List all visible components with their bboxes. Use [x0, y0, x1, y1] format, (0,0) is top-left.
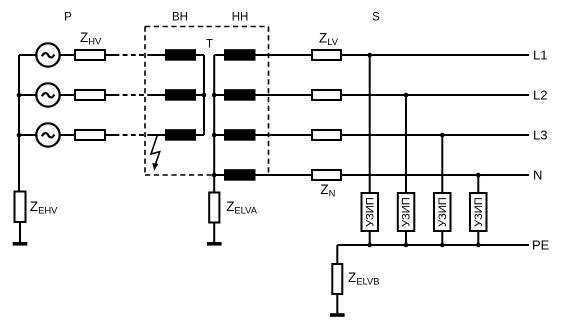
resistor row2: [75, 90, 105, 100]
wire row1 into winding: [150, 54, 166, 56]
wire G1 to resistor ZHV: [60, 54, 75, 56]
wire bus to G2: [19, 94, 36, 96]
wire bus to G3: [19, 134, 36, 136]
wire left bus vertical: [18, 55, 20, 192]
secondary winding row2: [224, 89, 256, 101]
resistor ZHV row1: [75, 50, 105, 60]
wire line L3: [341, 134, 529, 136]
secondary winding row3: [224, 129, 256, 141]
wire dashed row1: [115, 54, 151, 56]
wire line PE: [337, 244, 529, 246]
wire bus to secondary winding4: [214, 174, 224, 176]
wire line N: [341, 174, 529, 176]
wire dashed row3: [115, 134, 151, 136]
wire G2 to resistor row2: [60, 94, 75, 96]
resistor ZN row4: [312, 170, 341, 180]
ground ZEHV: [13, 242, 28, 246]
wire secondary winding4 to ZN: [256, 174, 313, 176]
junction left bus row L3: [17, 133, 22, 138]
wire resistor row1 to dashes: [105, 54, 115, 56]
resistor ZELVA: [209, 193, 219, 223]
SPD4 (УЗИП): [470, 193, 487, 231]
svg-text:НН: НН: [232, 12, 249, 24]
SPD1 (УЗИП): [362, 193, 379, 231]
wire drop N to SPD4: [477, 175, 479, 193]
AC source G1: [36, 43, 59, 66]
svg-text:L2: L2: [533, 88, 547, 103]
AC source G3: [36, 123, 59, 146]
junction primary bus row2: [202, 93, 207, 98]
wire bus to secondary winding1: [214, 54, 224, 56]
wire ZELVB to ground: [336, 294, 338, 315]
wire bus to secondary winding2: [214, 94, 224, 96]
secondary winding row N: [224, 169, 256, 181]
resistor row2 right: [312, 90, 341, 100]
wire winding1 to primary bus: [196, 54, 204, 56]
primary winding row3: [165, 129, 196, 141]
lightning stroke arrow: [151, 136, 160, 165]
secondary winding row1: [224, 49, 256, 61]
svg-text:N: N: [533, 168, 542, 183]
junction secondary bus row3: [212, 133, 217, 138]
wire secondary winding3 to resistor: [256, 134, 313, 136]
wire primary star bus: [203, 55, 205, 135]
AC source G2: [36, 83, 59, 106]
svg-text:ВН: ВН: [172, 12, 188, 24]
svg-text:УЗИП: УЗИП: [401, 197, 413, 227]
SPD3 (УЗИП): [434, 193, 451, 231]
wire secondary winding2 to resistor: [256, 94, 313, 96]
junction PE SPD2: [404, 243, 409, 248]
wire SPD4 to PE: [477, 231, 479, 245]
junction PE SPD4: [476, 243, 481, 248]
wire SPD1 to PE: [369, 231, 371, 245]
wire resistor row2 to dashes: [105, 94, 115, 96]
primary winding row1: [165, 49, 196, 61]
junction left bus row L2: [17, 93, 22, 98]
wire dashed row2: [115, 94, 151, 96]
svg-text:PE: PE: [532, 238, 550, 253]
svg-text:УЗИП: УЗИП: [437, 197, 449, 227]
wire row2 into winding: [150, 94, 166, 96]
wire SPD3 to PE: [441, 231, 443, 245]
resistor ZLV row1: [312, 50, 341, 60]
junction N drop: [476, 173, 481, 178]
junction secondary bus row2: [212, 93, 217, 98]
svg-text:P: P: [64, 12, 72, 24]
wire drop L2 to SPD2: [405, 95, 407, 193]
wire line L1: [341, 54, 529, 56]
svg-text:УЗИП: УЗИП: [364, 197, 376, 227]
wire winding3 to primary bus: [196, 134, 204, 136]
wire row3 into winding: [150, 134, 166, 136]
resistor row3 right: [312, 130, 341, 140]
svg-text:L1: L1: [533, 48, 547, 63]
primary winding row2: [165, 89, 196, 101]
svg-text:L3: L3: [533, 128, 547, 143]
wire resistor row3 to dashes: [105, 134, 115, 136]
resistor ZELVB: [332, 264, 342, 294]
ground ZELVA: [207, 242, 222, 246]
wire winding2 to primary bus: [196, 94, 204, 96]
ground ZELVB: [330, 313, 345, 317]
wire ZEHV to ground: [19, 222, 21, 243]
svg-text:T: T: [206, 39, 213, 51]
wire PE down to ZELVB: [336, 245, 338, 264]
resistor ZEHV: [15, 192, 26, 223]
junction L3 drop: [440, 133, 445, 138]
junction secondary bus row N: [212, 173, 217, 178]
resistor row3: [75, 130, 105, 140]
junction L1 drop: [367, 53, 372, 58]
svg-text:S: S: [372, 12, 380, 24]
wire bus to secondary winding3: [214, 134, 224, 136]
junction PE SPD1: [367, 243, 372, 248]
wire ZELVA to ground: [213, 223, 215, 244]
wire line L2: [341, 94, 529, 96]
wire SPD2 to PE: [405, 231, 407, 245]
wire bus to G1: [19, 54, 36, 56]
wire drop L1 to SPD1: [369, 55, 371, 193]
wire secondary star bus: [213, 55, 215, 193]
transformer T boundary (dashed box): [145, 27, 269, 176]
svg-text:УЗИП: УЗИП: [473, 197, 485, 227]
junction PE SPD3: [440, 243, 445, 248]
wire drop L3 to SPD3: [441, 135, 443, 193]
wire secondary winding1 to ZLV: [256, 54, 313, 56]
wire G3 to resistor row3: [60, 134, 75, 136]
junction L2 drop: [404, 93, 409, 98]
SPD2 (УЗИП): [398, 193, 415, 231]
